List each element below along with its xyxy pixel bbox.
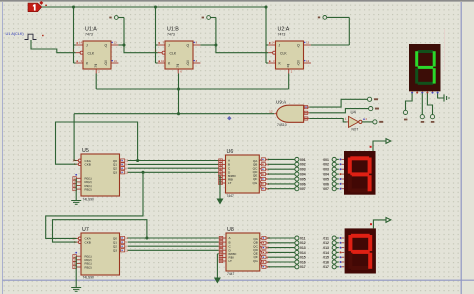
svg-text:011: 011	[300, 236, 306, 240]
svg-text:015: 015	[300, 256, 306, 260]
svg-text:Q: Q	[105, 62, 108, 66]
svg-text:012: 012	[300, 241, 306, 245]
svg-text:CLK: CLK	[88, 51, 95, 55]
svg-text:016: 016	[323, 260, 329, 264]
svg-text:003: 003	[300, 168, 306, 172]
svg-text:007: 007	[300, 187, 306, 191]
svg-text:74LS90: 74LS90	[83, 198, 95, 202]
svg-text:U1 A(CLK): U1 A(CLK)	[6, 32, 25, 36]
svg-text:014: 014	[323, 251, 329, 255]
svg-text:CKB: CKB	[85, 163, 91, 167]
svg-text:12: 12	[306, 41, 309, 45]
svg-text:014: 014	[300, 251, 306, 255]
svg-text:012: 012	[323, 241, 329, 245]
svg-text:006: 006	[300, 182, 306, 186]
svg-text:J: J	[279, 44, 281, 48]
svg-text:U6: U6	[227, 149, 234, 155]
svg-text:14: 14	[272, 41, 275, 45]
svg-text:12: 12	[114, 41, 117, 45]
svg-text:CKB: CKB	[85, 240, 91, 244]
svg-text:004: 004	[323, 173, 329, 177]
svg-text:001: 001	[323, 158, 329, 162]
svg-text:7447: 7447	[227, 194, 235, 198]
svg-text:13: 13	[306, 59, 309, 63]
svg-text:Q3: Q3	[113, 171, 117, 175]
svg-text:U9:A: U9:A	[276, 99, 287, 104]
svg-text:7473: 7473	[167, 33, 175, 37]
svg-text:006: 006	[323, 182, 329, 186]
svg-text:015: 015	[323, 256, 329, 260]
svg-text:7473: 7473	[85, 33, 93, 37]
svg-text:005: 005	[300, 177, 306, 181]
svg-text:CLK: CLK	[170, 51, 177, 55]
svg-text:R9(2): R9(2)	[85, 187, 92, 191]
svg-text:NOT: NOT	[352, 127, 359, 131]
svg-text:016: 016	[300, 260, 306, 264]
svg-text:QG: QG	[253, 259, 258, 263]
svg-text:002: 002	[300, 163, 306, 167]
svg-text:J: J	[86, 44, 88, 48]
svg-text:004: 004	[300, 173, 306, 177]
svg-text:013: 013	[300, 246, 306, 250]
svg-text:13: 13	[114, 59, 117, 63]
svg-text:U8: U8	[227, 227, 234, 233]
svg-text:U5: U5	[82, 148, 89, 154]
svg-text:Q: Q	[187, 44, 190, 48]
svg-text:LT: LT	[228, 181, 231, 185]
svg-text:74S10: 74S10	[277, 123, 287, 127]
svg-text:CLK: CLK	[280, 51, 287, 55]
svg-text:LT: LT	[229, 259, 232, 263]
svg-text:013: 013	[323, 246, 329, 250]
svg-text:74LS90: 74LS90	[83, 275, 95, 279]
svg-text:Q: Q	[297, 44, 300, 48]
svg-text:J: J	[168, 44, 170, 48]
svg-text:007: 007	[323, 187, 329, 191]
svg-text:7447: 7447	[227, 272, 235, 276]
svg-text:QG: QG	[252, 181, 257, 185]
svg-text:017: 017	[323, 265, 329, 269]
svg-text:Q3: Q3	[113, 249, 117, 253]
svg-text:10: 10	[161, 59, 164, 63]
svg-text:011: 011	[323, 236, 329, 240]
svg-text:7473: 7473	[278, 33, 286, 37]
svg-text:U4: U4	[351, 109, 357, 114]
svg-text:003: 003	[323, 168, 329, 172]
svg-text:U7: U7	[82, 227, 89, 233]
svg-text:14: 14	[79, 41, 82, 45]
svg-text:Q: Q	[297, 62, 300, 66]
svg-text:001: 001	[300, 158, 306, 162]
svg-text:12: 12	[269, 110, 273, 114]
svg-text:R9(2): R9(2)	[85, 265, 92, 269]
svg-text:002: 002	[323, 163, 329, 167]
svg-text:Q: Q	[187, 62, 190, 66]
svg-text:017: 017	[300, 265, 306, 269]
svg-text:005: 005	[323, 177, 329, 181]
svg-text:Q: Q	[105, 44, 108, 48]
